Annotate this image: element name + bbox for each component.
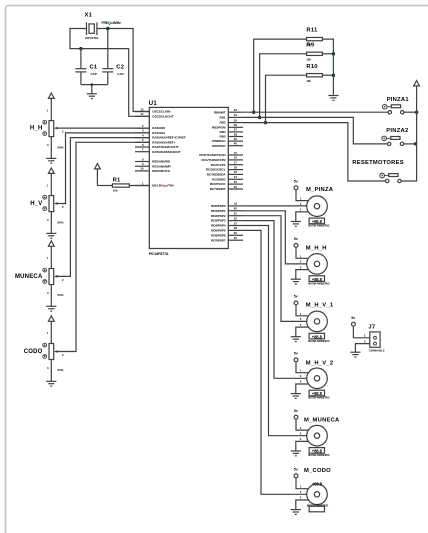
- svg-text:FREQ=4MHz: FREQ=4MHz: [102, 21, 122, 25]
- push button PINZA1: [383, 97, 410, 114]
- svg-text:23: 23: [234, 170, 238, 174]
- potentiometer H_V: [30, 183, 64, 224]
- motor M_H_H: [300, 246, 330, 286]
- ground below M_CODO: [291, 510, 301, 515]
- resistor R10: [306, 64, 322, 83]
- svg-text:34: 34: [234, 113, 238, 117]
- svg-text:RB2: RB2: [220, 121, 226, 125]
- svg-text:H_V: H_V: [30, 201, 42, 207]
- wire R10 left lead to riser: [266, 75, 307, 122]
- wire M_H_V_2 terminal to pin 1: [296, 362, 309, 373]
- svg-text:R1: R1: [113, 178, 121, 184]
- svg-text:16: 16: [234, 156, 238, 160]
- op-amp U1 body (PIC16F877A box): [149, 101, 229, 256]
- svg-text:36: 36: [234, 123, 238, 127]
- svg-text:RA0/AN0: RA0/AN0: [152, 126, 165, 130]
- svg-text:RC2/CCP1: RC2/CCP1: [211, 163, 226, 167]
- push button RESETMOTORES: [352, 160, 404, 183]
- wire R9 left lead to riser: [260, 54, 307, 118]
- junction R9 on ground rail: [332, 52, 336, 56]
- svg-text:14: 14: [140, 112, 144, 116]
- svg-text:10k: 10k: [306, 79, 311, 83]
- svg-text:25: 25: [234, 180, 238, 184]
- junction PINZA1 on +V rail: [415, 110, 419, 114]
- svg-text:50%: 50%: [57, 220, 63, 224]
- svg-text:R11: R11: [306, 28, 318, 34]
- motor M_H_V_1: [300, 303, 334, 343]
- svg-text:50%: 50%: [57, 293, 63, 297]
- svg-text:RC3/SCK/SCL: RC3/SCK/SCL: [206, 168, 226, 172]
- wire M_CODO terminal to pin 1: [296, 478, 309, 489]
- wire M_MUNECA pin 3 to ground: [296, 441, 309, 451]
- svg-text:RESETMOTORES: RESETMOTORES: [352, 160, 404, 166]
- svg-text:RD7/PSP7: RD7/PSP7: [211, 238, 226, 242]
- svg-text:RD6/PSP6: RD6/PSP6: [211, 233, 226, 237]
- svg-text:39: 39: [234, 137, 238, 141]
- svg-text:20: 20: [234, 207, 238, 211]
- svg-text:26: 26: [234, 185, 238, 189]
- svg-text:CODO: CODO: [24, 349, 43, 355]
- svg-text:RB6/PGC: RB6/PGC: [212, 139, 226, 143]
- svg-text:15: 15: [234, 151, 238, 155]
- ground for R11 R9 R10 rail: [328, 96, 338, 101]
- wire M_CODO pin 3 to ground: [296, 500, 309, 510]
- svg-text:J7: J7: [368, 325, 375, 331]
- svg-text:RC6/TX/CK: RC6/TX/CK: [210, 182, 226, 186]
- connector J7 CONN-SIL2: [364, 325, 385, 353]
- wire R1 to U1 MCLR pin 1: [129, 185, 149, 187]
- svg-text:27: 27: [234, 221, 238, 225]
- svg-text:22: 22: [234, 216, 238, 220]
- resistor R1: [112, 178, 129, 193]
- svg-text:RB0/INT: RB0/INT: [214, 110, 226, 114]
- svg-text:+88.8: +88.8: [312, 449, 323, 454]
- ground for C1 C2: [87, 85, 97, 99]
- terminal +5v for M_MUNECA: [294, 409, 298, 419]
- motor M_MUNECA: [300, 418, 340, 458]
- svg-text:RA4/T0CKI/C1OUT: RA4/T0CKI/C1OUT: [152, 145, 178, 149]
- wire J7 pin 1: [353, 326, 369, 338]
- power +V arrow for pot CODO: [48, 316, 54, 344]
- svg-text:R10: R10: [306, 64, 317, 70]
- wire R9 right lead: [322, 53, 333, 55]
- capacitor C1: [75, 49, 98, 85]
- wire M_H_H terminal to pin 1: [296, 247, 309, 258]
- terminal +5v for M_H_H: [294, 237, 298, 247]
- svg-text:50%: 50%: [57, 145, 63, 149]
- ground below pot CODO: [46, 360, 56, 387]
- wire M_MUNECA terminal to pin 1: [296, 419, 309, 430]
- svg-text:RD3/PSP3: RD3/PSP3: [211, 219, 226, 223]
- junction R10 on ground rail: [332, 73, 336, 77]
- svg-text:M_PINZA: M_PINZA: [306, 187, 334, 193]
- power +V arrow for pot MUNECA: [48, 241, 54, 269]
- svg-text:CONN-SIL2: CONN-SIL2: [369, 349, 385, 353]
- wire RB0 to PINZA1: [243, 111, 388, 113]
- svg-text:RD0/PSP0: RD0/PSP0: [211, 204, 226, 208]
- wire M_PINZA pin 3 to ground: [296, 212, 309, 222]
- svg-text:37: 37: [234, 128, 238, 132]
- wire R1 left lead: [97, 185, 112, 187]
- svg-text:RA5/AN4/SS/C2OUT: RA5/AN4/SS/C2OUT: [152, 150, 180, 154]
- svg-text:M_MUNECA: M_MUNECA: [304, 418, 340, 424]
- wire PINZA2 right terminal to +V rail: [404, 143, 416, 145]
- wire J7 pin 2 to ground: [355, 344, 369, 353]
- svg-text:X1: X1: [85, 13, 93, 19]
- svg-text:19: 19: [234, 202, 238, 206]
- motor M_H_V_2: [300, 361, 334, 400]
- svg-text:13: 13: [140, 107, 144, 111]
- svg-text:35: 35: [234, 118, 238, 122]
- wire U1 RD to M_H_H pin 2: [243, 211, 307, 264]
- resistor R9: [306, 42, 322, 61]
- push button PINZA2: [382, 128, 409, 146]
- svg-text:R9: R9: [306, 42, 314, 48]
- wire OSC1 net: crystal right plate to U1 pin13: [97, 29, 149, 112]
- svg-text:17: 17: [234, 161, 238, 165]
- svg-text:5v: 5v: [294, 409, 298, 413]
- crystal X1: [85, 13, 122, 41]
- wire RB1 to PINZA2: [243, 117, 388, 143]
- svg-text:C2: C2: [116, 64, 124, 70]
- svg-text:5v: 5v: [294, 180, 298, 184]
- svg-text:RE1/AN6/WR: RE1/AN6/WR: [152, 164, 171, 168]
- svg-text:50%: 50%: [57, 368, 63, 372]
- svg-text:MOTOR-PWMSERVO: MOTOR-PWMSERVO: [308, 455, 330, 457]
- svg-text:RC7/RX/DT: RC7/RX/DT: [210, 187, 226, 191]
- wire U1 RD0 to M_PINZA pin 2: [243, 205, 307, 207]
- wire capacitor C2 lead crossing OSC2 wire: [107, 29, 109, 69]
- wire OSC2 net: crystal left lead loop to U1 pin14: [70, 29, 149, 117]
- svg-text:M_H_V_2: M_H_V_2: [306, 361, 334, 367]
- svg-text:MOTOR-PWMSERVO: MOTOR-PWMSERVO: [307, 506, 329, 508]
- motor M_CODO: [300, 468, 331, 512]
- svg-text:10: 10: [140, 167, 144, 171]
- svg-text:CRYSTAL: CRYSTAL: [85, 36, 99, 40]
- junction caps ground tap: [90, 83, 93, 86]
- power +V arrow for buttons rail: [414, 81, 420, 87]
- terminal +5v for M_PINZA: [294, 180, 298, 190]
- svg-text:MOTOR-PWMSERVO: MOTOR-PWMSERVO: [308, 226, 330, 228]
- ground below pot H_V: [46, 212, 56, 239]
- wire R11 right lead to ground rail: [322, 39, 333, 95]
- wire M_H_V_1 pin 3 to ground: [296, 327, 309, 337]
- svg-text:MCLR/Vpp/THV: MCLR/Vpp/THV: [152, 184, 175, 188]
- svg-text:OSC1/CLKIN: OSC1/CLKIN: [152, 110, 171, 114]
- svg-text:RC5/SDO: RC5/SDO: [212, 177, 226, 181]
- wire R11 left lead to riser: [254, 39, 307, 112]
- svg-text:M_H_H: M_H_H: [306, 246, 327, 252]
- ground below pot H_H: [46, 137, 56, 164]
- svg-text:+88.8: +88.8: [312, 482, 323, 487]
- svg-text:RA3/AN3/VREF+: RA3/AN3/VREF+: [152, 140, 175, 144]
- ground below M_H_H: [291, 279, 301, 284]
- power +V arrow for pot H_V: [48, 168, 54, 196]
- wire U1 RD to M_CODO pin 2: [243, 230, 307, 494]
- svg-text:OSC2/CLKOUT: OSC2/CLKOUT: [152, 114, 173, 118]
- wire pot CODO wiper to U1 RA3: [57, 142, 150, 351]
- wire PINZA1 right terminal to +V rail: [404, 111, 417, 113]
- svg-text:RA1/AN1: RA1/AN1: [152, 131, 165, 135]
- svg-text:5v: 5v: [294, 352, 298, 356]
- svg-text:MUNECA: MUNECA: [15, 274, 43, 280]
- svg-text:MOTOR-PWMSERVO: MOTOR-PWMSERVO: [308, 283, 330, 285]
- svg-text:21: 21: [234, 212, 238, 216]
- svg-text:10k: 10k: [113, 189, 118, 193]
- svg-text:28: 28: [234, 226, 238, 230]
- wire pot H_H wiper to U1 RA0: [57, 127, 150, 129]
- svg-text:5v: 5v: [294, 468, 298, 472]
- svg-text:RD5/PSP5: RD5/PSP5: [211, 229, 226, 233]
- power +V arrow for R1: [95, 164, 101, 186]
- power +V arrow for pot H_H: [48, 93, 54, 121]
- terminal +5v for M_CODO: [294, 468, 298, 478]
- wire M_H_V_1 terminal to pin 1: [296, 305, 309, 316]
- svg-text:PINZA1: PINZA1: [387, 97, 410, 103]
- wire U1 RD to M_MUNECA pin 2: [243, 226, 307, 436]
- ground below M_PINZA: [291, 222, 301, 227]
- terminal +5v for M_H_V_1: [294, 295, 298, 305]
- svg-text:RB5: RB5: [220, 135, 226, 139]
- wire caps bottom rail: [81, 84, 108, 86]
- ground below M_H_V_2: [291, 394, 301, 399]
- svg-text:24: 24: [234, 175, 238, 179]
- svg-text:PIC16F877A: PIC16F877A: [149, 252, 169, 256]
- svg-text:38: 38: [234, 132, 238, 136]
- junction PINZA2 on +V rail: [414, 142, 418, 146]
- terminal +5v for J7: [351, 316, 355, 326]
- wire RESETMOTORES right terminal to +V rail: [401, 86, 416, 181]
- junction R9 riser on RB wire: [258, 116, 262, 120]
- potentiometer H_H: [30, 108, 64, 149]
- svg-text:30: 30: [234, 236, 238, 240]
- svg-text:10k: 10k: [306, 57, 311, 61]
- ground below M_MUNECA: [291, 451, 301, 456]
- svg-text:RE0/AN5/RD: RE0/AN5/RD: [152, 160, 170, 164]
- svg-text:+88.8: +88.8: [312, 334, 323, 339]
- svg-text:40: 40: [234, 142, 238, 146]
- wire M_H_H pin 3 to ground: [296, 270, 309, 280]
- svg-text:RD2/PSP2: RD2/PSP2: [211, 214, 226, 218]
- U1 right pins RB0-RB7 RC0-RC7 RD0-RD7 with pin numbers: [199, 108, 243, 242]
- svg-text:+88.8: +88.8: [312, 391, 323, 396]
- svg-text:MOTOR-PWMSERVO: MOTOR-PWMSERVO: [308, 341, 330, 343]
- wire M_H_V_2 pin 3 to ground: [296, 384, 309, 394]
- junction C2 on OSC1 net: [106, 27, 110, 31]
- svg-text:CAP: CAP: [91, 72, 97, 76]
- svg-text:U1: U1: [149, 101, 158, 107]
- svg-text:5v: 5v: [351, 316, 355, 320]
- junction R11 riser on RB wire: [252, 110, 256, 114]
- svg-text:MOTOR-PWMSERVO: MOTOR-PWMSERVO: [308, 398, 330, 400]
- svg-text:+88.8: +88.8: [312, 219, 323, 224]
- svg-text:RC4/SDI/SDA: RC4/SDI/SDA: [207, 173, 227, 177]
- terminal +5v for M_H_V_2: [294, 352, 298, 362]
- svg-text:RC1/T1OSI/CCP2: RC1/T1OSI/CCP2: [202, 158, 226, 162]
- svg-text:RE2/AN7/CS: RE2/AN7/CS: [152, 169, 169, 173]
- svg-text:PINZA2: PINZA2: [386, 128, 408, 134]
- capacitor C2: [102, 64, 124, 84]
- svg-text:5v: 5v: [294, 295, 298, 299]
- U1 left pins OSC1 OSC2 RA0-RA5 RE0-RE2 with pin numbers: [135, 107, 186, 173]
- motor M_PINZA: [300, 187, 334, 227]
- svg-text:RA2/AN2/VREF-/CVREF: RA2/AN2/VREF-/CVREF: [152, 136, 185, 140]
- svg-text:M_CODO: M_CODO: [304, 468, 331, 474]
- ground below pot MUNECA: [46, 285, 56, 312]
- wire pot MUNECA wiper to U1 RA2: [57, 138, 150, 277]
- svg-text:C1: C1: [90, 64, 98, 70]
- wire U1 RD to M_H_V_1 pin 2: [243, 216, 307, 322]
- svg-text:RB4: RB4: [220, 130, 226, 134]
- svg-text:5v: 5v: [294, 237, 298, 241]
- svg-text:RD1/PSP1: RD1/PSP1: [211, 209, 226, 213]
- wire U1 RD to M_H_V_2 pin 2: [243, 221, 307, 379]
- svg-text:29: 29: [234, 231, 238, 235]
- svg-text:RC0/T1OSO/T1CKI: RC0/T1OSO/T1CKI: [199, 153, 225, 157]
- wire pot H_V wiper to U1 RA1: [57, 133, 150, 204]
- svg-text:M_H_V_1: M_H_V_1: [306, 303, 334, 309]
- svg-text:CAP: CAP: [117, 72, 123, 76]
- ground below J7: [350, 352, 360, 357]
- potentiometer MUNECA: [15, 256, 64, 297]
- svg-text:RB3/PGM: RB3/PGM: [212, 125, 226, 129]
- ground below M_H_V_1: [291, 337, 301, 342]
- U1 pin 1 MCLR/Vpp/THV: [135, 181, 175, 187]
- wire RB2 to RESETMOTORES: [243, 123, 386, 181]
- svg-text:RB7/PGD: RB7/PGD: [212, 144, 226, 148]
- junction R10 riser on RB wire: [264, 121, 268, 125]
- svg-text:+88.8: +88.8: [312, 277, 323, 282]
- potentiometer CODO: [24, 331, 64, 372]
- svg-text:H_H: H_H: [30, 126, 43, 132]
- junction C1 on OSC2 net: [79, 47, 83, 51]
- svg-text:RB1: RB1: [220, 116, 226, 120]
- svg-text:RD4/PSP4: RD4/PSP4: [211, 224, 226, 228]
- wire M_PINZA terminal to pin 1: [296, 190, 309, 201]
- resistor R11: [306, 28, 322, 47]
- wire R10 right lead: [322, 74, 333, 76]
- svg-text:18: 18: [234, 165, 238, 169]
- svg-text:33: 33: [234, 108, 238, 112]
